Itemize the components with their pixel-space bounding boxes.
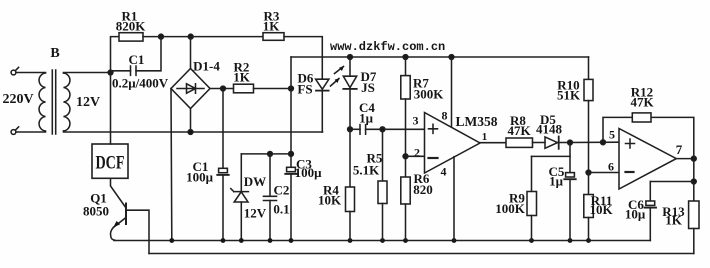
node DW/C2 wire joins V+	[289, 152, 294, 157]
node C1 right lead junction	[159, 34, 164, 39]
wire top supply rail y57	[291, 56, 589, 58]
svg-text:1K: 1K	[665, 213, 683, 228]
svg-text:D1-4: D1-4	[193, 59, 220, 74]
resistor R5 vertical	[378, 129, 387, 240]
op-amp U1A minus sign	[429, 157, 438, 159]
wire R2 right to V+ vertical	[254, 88, 292, 90]
resistor R12 body	[632, 113, 651, 122]
wire pin 2 lead	[406, 155, 425, 157]
svg-text:JS: JS	[361, 80, 375, 95]
resistor R4 vertical	[346, 129, 355, 240]
transistor Q1 base bar	[125, 204, 127, 225]
svg-text:10K: 10K	[318, 193, 342, 208]
node ground rail dots left section	[169, 238, 590, 243]
svg-text:2: 2	[414, 146, 420, 160]
wire DW C2 top wire	[241, 153, 291, 155]
svg-text:220V: 220V	[2, 92, 33, 107]
diode D5 4148	[545, 137, 570, 149]
svg-text:1K: 1K	[233, 70, 251, 85]
node R2 right on V+ vertical	[289, 86, 294, 91]
node C6 branch junction	[691, 179, 696, 184]
wire DCF top lead	[110, 73, 112, 145]
svg-text:12V: 12V	[244, 206, 267, 221]
resistor R1 body	[119, 33, 143, 41]
wire output pin7	[676, 158, 694, 160]
node bridge top junction	[188, 34, 193, 39]
svg-text:3: 3	[413, 114, 419, 128]
capacitor C3 100u electrolytic	[285, 167, 296, 240]
svg-text:8050: 8050	[83, 204, 109, 219]
LED D6 FS symbol	[316, 79, 329, 132]
wire secondary top to node	[64, 72, 111, 75]
node C4 left junction	[348, 127, 353, 132]
wire C5 branch vertical	[569, 143, 571, 173]
svg-text:820K: 820K	[116, 19, 147, 34]
node AC input terminal bottom	[11, 130, 16, 135]
wire bridge bottom lead	[190, 109, 192, 133]
svg-text:8: 8	[442, 109, 448, 123]
svg-text:1μ: 1μ	[549, 174, 564, 189]
wire R1 right to junctions	[143, 36, 263, 38]
svg-text:10K: 10K	[589, 202, 613, 217]
capacitor C6 10u electrolytic	[645, 182, 656, 241]
block DCF	[92, 144, 128, 178]
wire R8 to D5	[533, 142, 546, 144]
svg-text:www.dzkfw.com.cn: www.dzkfw.com.cn	[330, 40, 445, 54]
capacitor C2 plates	[264, 196, 277, 200]
resistor R6 vertical	[401, 156, 410, 240]
resistor R9 vertical	[527, 156, 537, 240]
node bridge bottom on AC2 wire	[188, 130, 193, 135]
node pin2 junction R7/R6	[403, 154, 408, 159]
zener DW leads	[240, 154, 242, 241]
svg-text:4148: 4148	[536, 122, 563, 137]
wire output pin1 to R8	[480, 142, 506, 144]
resistor R2 body	[234, 84, 254, 93]
svg-text:10μ: 10μ	[625, 207, 646, 222]
svg-text:1: 1	[482, 131, 488, 143]
svg-text:4: 4	[441, 165, 447, 179]
svg-text:1K: 1K	[263, 19, 281, 34]
node pin6 junction R10/R11	[586, 170, 591, 175]
wire DCF bottom to Q1 base	[111, 178, 126, 207]
node R2 left / C1-100u junction	[221, 86, 226, 91]
node output pin7 junction	[691, 156, 696, 161]
wire primary bottom lead	[16, 131, 46, 133]
capacitor C4 1u plates	[360, 125, 366, 135]
resistor R7 vertical	[401, 57, 410, 156]
wire pin 8 lead	[451, 57, 453, 127]
svg-text:300K: 300K	[414, 87, 445, 102]
wire vertical x110 up to R1 row	[111, 37, 120, 73]
node junction transformer/R1/DCF	[108, 70, 113, 75]
resistor R13 vertical	[689, 201, 699, 254]
resistor R8 body	[506, 138, 533, 147]
op-amp U1A plus sign	[429, 124, 438, 133]
wire C1 right lead up to R1 node	[136, 37, 161, 71]
rectifier D1-4 inner diode	[177, 84, 204, 93]
wire bridge top lead	[190, 37, 192, 69]
wire C4 left lead	[350, 128, 360, 130]
capacitor C2 leads	[269, 154, 271, 241]
node C4 right / R5 junction	[380, 127, 385, 132]
node D7 anode on top rail	[348, 55, 353, 60]
wire R3 right then down to D6 anode	[284, 37, 322, 80]
transformer B secondary winding	[64, 73, 70, 131]
svg-text:B: B	[50, 46, 59, 61]
svg-text:7: 7	[676, 142, 683, 157]
photodiode D7 JS symbol	[343, 57, 356, 129]
svg-text:LM358: LM358	[456, 114, 498, 129]
svg-text:47K: 47K	[507, 123, 531, 138]
svg-text:C1: C1	[129, 52, 145, 67]
wire output down through R13	[693, 159, 695, 201]
node C2 top junction	[268, 152, 273, 157]
op-amp U1B LM358 triangle	[619, 129, 676, 190]
transistor Q1 emitter lead with arrow	[110, 218, 126, 241]
svg-text:DW: DW	[244, 174, 266, 189]
wire C6 link horizontal	[650, 181, 694, 183]
svg-text:100μ: 100μ	[295, 165, 323, 180]
wire D5 node to pin 5	[570, 141, 619, 143]
wire pin 4 lead	[453, 157, 455, 241]
svg-text:820: 820	[413, 182, 433, 197]
svg-text:5: 5	[609, 128, 615, 142]
op-amp U1A LM358 triangle	[425, 113, 481, 174]
wire R9 link horizontal	[532, 155, 571, 157]
node R12 tap on pin5 wire	[601, 140, 606, 145]
resistor R10 vertical from top rail	[584, 57, 593, 173]
wire R12 feedback loop	[603, 117, 694, 158]
node AC input terminal top	[11, 70, 16, 75]
svg-text:100K: 100K	[495, 201, 526, 216]
svg-text:5.1K: 5.1K	[353, 163, 380, 178]
wire C1 left lead	[111, 70, 131, 72]
svg-text:12V: 12V	[76, 95, 100, 110]
svg-text:1μ: 1μ	[359, 111, 374, 126]
zener DW symbol	[231, 189, 249, 202]
svg-text:C2: C2	[274, 183, 290, 198]
wire collector return line bottom	[149, 253, 694, 255]
node pin8 top on rail	[449, 55, 454, 60]
wire ground rail	[114, 240, 650, 242]
node D5 cathode junction	[568, 140, 573, 145]
capacitor C1 100u electrolytic plates	[217, 168, 228, 240]
svg-text:FS: FS	[297, 82, 312, 97]
svg-text:0.1: 0.1	[273, 202, 289, 217]
svg-text:6: 6	[608, 160, 614, 174]
transformer B core	[52, 70, 55, 134]
wire C4 right to pin3	[366, 128, 425, 130]
transistor Q1 collector lead	[127, 210, 150, 253]
wire bridge right to R2	[210, 88, 234, 90]
svg-text:51K: 51K	[557, 88, 581, 103]
wire bridge left lead down to ground rail	[170, 89, 173, 241]
wire AC2 secondary bottom run	[64, 131, 323, 132]
svg-text:DCF: DCF	[96, 153, 125, 174]
capacitor C1 0.2u plates	[131, 66, 137, 75]
node R7 top on rail	[403, 55, 408, 60]
wire pin 6 lead	[589, 172, 620, 174]
svg-text:0.2μ/400V: 0.2μ/400V	[112, 76, 169, 91]
op-amp U1B plus sign	[626, 139, 635, 148]
resistor R11 vertical	[584, 173, 594, 241]
wire V+ vertical x291	[290, 57, 292, 167]
wire primary top lead	[16, 72, 46, 74]
op-amp U1B minus sign	[626, 171, 634, 173]
capacitor C1 100u vertical line	[222, 89, 224, 169]
transformer B primary winding	[39, 73, 45, 131]
svg-text:100μ: 100μ	[186, 170, 214, 185]
light arrows between D6 and D7	[331, 66, 345, 86]
rectifier D1-4 bridge diamond	[171, 69, 210, 109]
resistor R3 body	[263, 33, 284, 41]
svg-text:47K: 47K	[630, 95, 654, 110]
capacitor C5 1u electrolytic	[564, 173, 575, 241]
